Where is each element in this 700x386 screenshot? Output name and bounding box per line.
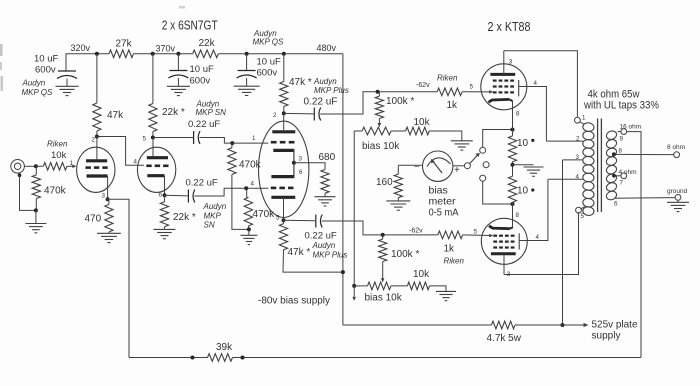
svg-text:22k *: 22k * (162, 107, 185, 118)
svg-text:470k: 470k (239, 160, 262, 171)
svg-text:Audyn: Audyn (313, 77, 337, 86)
svg-text:10k: 10k (414, 117, 431, 128)
svg-text:4.7k 5w: 4.7k 5w (487, 333, 522, 344)
svg-text:−: − (414, 162, 419, 172)
svg-text:7: 7 (620, 180, 624, 187)
svg-text:8: 8 (516, 111, 520, 118)
svg-text:Riken: Riken (47, 140, 68, 149)
svg-text:100k *: 100k * (386, 96, 414, 107)
svg-text:supply: supply (592, 330, 622, 342)
svg-text:0.22 uF: 0.22 uF (186, 178, 218, 189)
svg-text:3: 3 (576, 154, 580, 161)
svg-text:-62v: -62v (416, 82, 430, 89)
svg-text:MKP Plus: MKP Plus (313, 251, 348, 260)
svg-text:470: 470 (85, 214, 102, 225)
svg-text:ground: ground (667, 188, 688, 195)
svg-text:1: 1 (70, 160, 74, 167)
svg-text:5: 5 (143, 136, 147, 143)
svg-text:680: 680 (319, 152, 336, 163)
svg-text:4 ohm: 4 ohm (619, 169, 637, 176)
svg-text:bias 10k: bias 10k (365, 293, 403, 304)
svg-text:10k: 10k (413, 269, 430, 280)
svg-text:4: 4 (251, 180, 255, 187)
svg-text:-62v: -62v (409, 228, 423, 235)
svg-text:600v: 600v (35, 65, 56, 76)
svg-text:MKP QS: MKP QS (22, 88, 53, 97)
svg-text:320v: 320v (71, 43, 91, 53)
svg-text:1: 1 (252, 135, 256, 142)
svg-text:47k: 47k (107, 110, 124, 121)
svg-text:Riken: Riken (437, 74, 458, 83)
svg-text:470k: 470k (253, 209, 276, 220)
svg-text:10: 10 (517, 138, 529, 149)
svg-text:2 x KT88: 2 x KT88 (488, 20, 531, 34)
svg-text:160: 160 (376, 177, 393, 188)
svg-text:5: 5 (470, 84, 474, 91)
svg-text:10k: 10k (51, 150, 67, 161)
svg-text:47k *: 47k * (288, 247, 311, 258)
svg-text:4: 4 (534, 80, 538, 87)
svg-text:10: 10 (517, 186, 529, 197)
svg-text:5: 5 (276, 215, 280, 222)
svg-text:Audyn: Audyn (312, 241, 336, 250)
svg-text:2: 2 (273, 112, 277, 119)
svg-text:with UL taps 33%: with UL taps 33% (583, 100, 659, 112)
svg-text:4: 4 (134, 159, 138, 166)
svg-text:5: 5 (581, 213, 585, 220)
svg-text:2: 2 (92, 137, 96, 144)
svg-text:3: 3 (102, 193, 106, 200)
svg-text:5: 5 (474, 229, 478, 236)
svg-text:0.22 uF: 0.22 uF (304, 97, 338, 108)
svg-text:10 uF: 10 uF (257, 57, 281, 68)
svg-text:3: 3 (507, 271, 511, 278)
svg-text:MKP SN: MKP SN (196, 108, 227, 117)
svg-text:+: + (454, 165, 460, 176)
svg-text:10 uF: 10 uF (34, 54, 58, 65)
svg-text:47k *: 47k * (289, 77, 312, 88)
svg-text:Riken: Riken (444, 257, 465, 266)
svg-text:9: 9 (620, 136, 624, 143)
svg-text:6: 6 (299, 169, 303, 176)
svg-text:0.22 uF: 0.22 uF (305, 231, 337, 242)
svg-text:0-5 mA: 0-5 mA (429, 207, 459, 219)
svg-text:39k: 39k (216, 342, 233, 353)
svg-text:MKP QS: MKP QS (253, 38, 284, 47)
svg-text:0.22 uF: 0.22 uF (188, 119, 220, 130)
svg-text:22k *: 22k * (173, 212, 196, 223)
svg-text:1: 1 (582, 114, 586, 121)
svg-text:1k: 1k (444, 244, 456, 255)
svg-text:470k: 470k (44, 186, 67, 197)
svg-text:480v: 480v (317, 43, 337, 53)
svg-text:SN: SN (204, 221, 215, 230)
svg-text:1k: 1k (447, 100, 459, 111)
svg-text:22k: 22k (199, 38, 216, 49)
svg-text:10 uF: 10 uF (190, 64, 214, 75)
svg-text:Audyn: Audyn (203, 202, 227, 211)
svg-text:3: 3 (299, 156, 303, 163)
svg-text:8: 8 (619, 148, 623, 155)
svg-text:16 ohm: 16 ohm (620, 124, 642, 131)
svg-text:MKP: MKP (204, 212, 222, 221)
svg-text:370v: 370v (156, 44, 176, 54)
svg-text:4: 4 (536, 234, 540, 241)
svg-text:100k *: 100k * (391, 249, 419, 260)
svg-text:4: 4 (576, 174, 580, 181)
svg-text:2: 2 (576, 136, 580, 143)
svg-text:-80v bias supply: -80v bias supply (258, 296, 330, 307)
svg-text:8: 8 (516, 212, 520, 219)
svg-text:600v: 600v (190, 76, 211, 87)
svg-text:8 ohm: 8 ohm (667, 144, 685, 151)
svg-text:Audyn: Audyn (22, 79, 46, 88)
svg-text:2 x 6SN7GT: 2 x 6SN7GT (162, 19, 218, 33)
svg-text:27k: 27k (116, 39, 133, 50)
svg-text:6: 6 (614, 201, 618, 208)
svg-text:MKP Plus: MKP Plus (314, 86, 349, 95)
svg-text:6: 6 (159, 192, 163, 199)
svg-text:600v: 600v (257, 68, 278, 79)
svg-text:bias 10k: bias 10k (362, 141, 400, 152)
svg-text:3: 3 (509, 59, 513, 66)
